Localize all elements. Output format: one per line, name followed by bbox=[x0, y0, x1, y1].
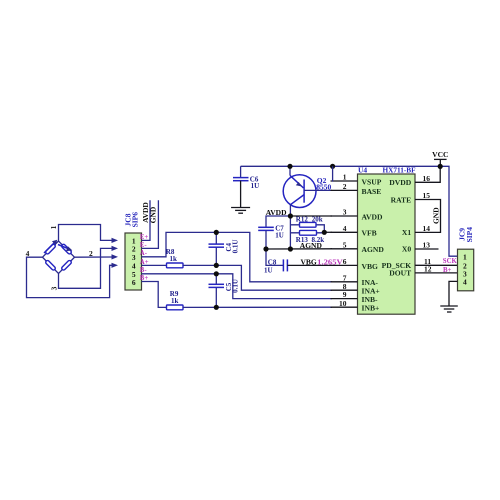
svg-text:1: 1 bbox=[49, 225, 58, 229]
svg-text:VFB: VFB bbox=[362, 229, 377, 238]
svg-text:X1: X1 bbox=[402, 228, 411, 237]
svg-text:8550: 8550 bbox=[316, 182, 331, 191]
arrow into JC8 pin3 bbox=[112, 254, 119, 259]
svg-text:RATE: RATE bbox=[391, 196, 412, 205]
ground symbol below C6 bbox=[231, 208, 250, 214]
JC9 pin numbers bbox=[463, 252, 467, 286]
transistor Q2 circle bbox=[283, 175, 316, 208]
JC8 pin numbers bbox=[132, 237, 136, 287]
wire A- net JC8 pin3 to IC pin7 INA- bbox=[142, 232, 333, 281]
wire AGND line to IC pin5 bbox=[266, 248, 332, 250]
svg-text:VBG: VBG bbox=[362, 262, 379, 271]
resistor R12 bbox=[300, 222, 317, 227]
wire A+ net JC8 pin4 to R8 bbox=[142, 264, 167, 266]
svg-text:3: 3 bbox=[343, 208, 347, 217]
IC U4 body bbox=[358, 174, 416, 314]
resistor R12 leads bbox=[290, 225, 324, 233]
junction dot C5 bottom bbox=[214, 305, 219, 310]
wire R9 to C5 junction to IC pin10 INB+ bbox=[183, 306, 332, 308]
capacitor C4 plates bbox=[209, 244, 225, 247]
resistor R13 bbox=[300, 230, 317, 235]
IC left pin numbers bbox=[339, 173, 347, 308]
svg-text:U4: U4 bbox=[358, 165, 367, 174]
junction dot AGND at C7 bbox=[263, 246, 268, 251]
junction dot AVDD node bbox=[288, 213, 293, 218]
IC left pin names bbox=[362, 177, 385, 312]
wire C8 to IC pin6 VBG bbox=[287, 264, 332, 266]
IC right pin names bbox=[382, 178, 412, 278]
svg-text:10: 10 bbox=[339, 299, 347, 308]
svg-text:HX711-BF: HX711-BF bbox=[383, 165, 416, 174]
svg-text:INB+: INB+ bbox=[362, 304, 380, 313]
wire VSUP riser to IC pin1 bbox=[331, 166, 334, 181]
connector JC9 body bbox=[458, 249, 474, 291]
wire JC9 pin4 to ground bbox=[449, 281, 458, 306]
wire pin16 DVDD to VCC rail bbox=[415, 166, 440, 182]
wire VFB node to IC pin4 bbox=[324, 231, 332, 233]
wire E- from bridge bottom to JC8 pin2 arrow bbox=[59, 248, 113, 288]
junction dot rail at VSUP riser bbox=[330, 164, 335, 169]
svg-text:GND: GND bbox=[431, 207, 440, 224]
svg-text:3: 3 bbox=[50, 286, 59, 290]
Q2 collector diagonal bbox=[290, 195, 304, 205]
svg-text:0.1U: 0.1U bbox=[232, 240, 240, 254]
capacitor C5 plates bbox=[209, 284, 225, 287]
IC right pin numbers bbox=[423, 174, 432, 274]
capacitor C4 leads bbox=[215, 232, 217, 265]
svg-text:SIP6: SIP6 bbox=[130, 212, 139, 228]
wire R8 to C4 junction to IC pin8 INA+ bbox=[183, 265, 332, 290]
capacitor C6 leads bbox=[240, 166, 242, 177]
svg-text:5: 5 bbox=[343, 240, 347, 249]
svg-text:DVDD: DVDD bbox=[389, 178, 411, 187]
bridge gauge arrow top-right bbox=[58, 245, 72, 252]
VCC power rail bbox=[241, 166, 458, 256]
svg-text:SIP4: SIP4 bbox=[465, 227, 474, 243]
junction dot AGND at divider bbox=[288, 246, 293, 251]
bridge strain gauge R bottom-left bbox=[45, 260, 56, 271]
bridge gauge arrow top-left bbox=[44, 240, 57, 253]
svg-text:1: 1 bbox=[463, 252, 467, 261]
resistor R8 bbox=[167, 263, 184, 268]
svg-text:13: 13 bbox=[423, 241, 431, 250]
wire B- net JC8 pin5 to IC pin9 INB- bbox=[142, 274, 333, 299]
svg-text:VCC: VCC bbox=[432, 150, 448, 159]
svg-text:B+: B+ bbox=[443, 267, 452, 274]
wire pin11 PD_SCK to JC9 pin2 bbox=[415, 264, 458, 266]
wire JC8 pin2 to GND stub bbox=[142, 200, 159, 248]
Q2 collector wire down to AVDD node bbox=[289, 205, 291, 216]
Q2 base wire to IC pin2 bbox=[304, 189, 332, 191]
wire AVDD node to IC pin3 bbox=[290, 215, 332, 217]
load cell bridge outline bbox=[43, 241, 75, 273]
wire B+ net JC8 pin6 to R9 bbox=[142, 282, 167, 308]
svg-text:14: 14 bbox=[423, 224, 431, 233]
svg-text:15: 15 bbox=[423, 191, 431, 200]
svg-text:VSUP: VSUP bbox=[362, 177, 382, 186]
svg-text:2: 2 bbox=[343, 182, 347, 191]
wire E+ from bridge top to JC8 pin1 arrow bbox=[59, 225, 113, 242]
divider vertical AVDD to AGND bbox=[289, 216, 291, 249]
svg-text:C8: C8 bbox=[268, 258, 277, 266]
svg-text:GND: GND bbox=[149, 206, 158, 223]
svg-text:SCK: SCK bbox=[443, 258, 458, 265]
wire A- from bridge right to JC8 pin3 arrow bbox=[75, 256, 113, 258]
svg-text:1U: 1U bbox=[264, 266, 273, 274]
arrow into JC8 pin4 bbox=[112, 263, 119, 268]
wire AGND down to C8 bbox=[266, 249, 283, 265]
junction dot rail at Q2 emitter bbox=[287, 164, 292, 169]
Q2 emitter diagonal with arrow bbox=[290, 175, 304, 188]
Q2 base bar bbox=[303, 180, 305, 203]
svg-text:1k: 1k bbox=[171, 297, 179, 305]
svg-text:AGND: AGND bbox=[362, 245, 385, 254]
bridge strain gauge R bottom-right bbox=[61, 260, 72, 271]
JC8 pin net labels bbox=[140, 234, 149, 282]
svg-text:DOUT: DOUT bbox=[389, 269, 411, 278]
C6 lower lead bbox=[240, 181, 242, 208]
resistor R9 bbox=[167, 305, 184, 310]
capacitor C6 plates bbox=[233, 178, 249, 181]
svg-text:X0: X0 bbox=[402, 245, 411, 254]
svg-text:20k: 20k bbox=[312, 215, 323, 223]
junction dot C5 top bbox=[214, 271, 219, 276]
junction dot VFB node bbox=[322, 230, 327, 235]
svg-text:0.1U: 0.1U bbox=[232, 279, 240, 293]
svg-text:BASE: BASE bbox=[362, 187, 382, 196]
resistor R13 leads bbox=[290, 232, 324, 234]
svg-text:AVDD: AVDD bbox=[362, 212, 383, 221]
ground symbol below JC9 bbox=[440, 306, 458, 312]
svg-text:1k: 1k bbox=[170, 255, 178, 263]
wire A+ from bridge left to JC8 pin4 arrow bbox=[27, 257, 113, 297]
svg-text:1U: 1U bbox=[275, 231, 284, 239]
svg-text:6: 6 bbox=[132, 278, 136, 287]
wire JC8 pin1 to AVDD stub bbox=[142, 200, 151, 240]
IC left pin stubs bbox=[331, 181, 358, 307]
wire pin12 DOUT to JC9 pin3 bbox=[415, 272, 458, 274]
capacitor C8 plates bbox=[283, 259, 287, 271]
svg-text:16: 16 bbox=[423, 174, 431, 183]
arrow into JC8 pin2 bbox=[112, 246, 119, 251]
wire AVDD node to C7 bbox=[266, 216, 290, 227]
junction dot C4 bottom bbox=[214, 263, 219, 268]
svg-text:VBG: VBG bbox=[301, 257, 317, 266]
pin13 X0 stub bbox=[415, 248, 439, 250]
arrow into JC8 pin1 bbox=[112, 238, 119, 243]
junction dot VCC bbox=[438, 164, 443, 169]
power symbol VCC bbox=[432, 150, 448, 166]
svg-text:1U: 1U bbox=[251, 182, 260, 190]
Q2 emitter wire from rail bbox=[289, 166, 291, 175]
svg-text:R12: R12 bbox=[296, 215, 309, 223]
wire pin15 RATE to pin14 X1 GND net bbox=[415, 200, 441, 233]
svg-text:1: 1 bbox=[343, 173, 347, 182]
svg-text:6: 6 bbox=[343, 257, 347, 266]
junction dot C4 top bbox=[214, 230, 219, 235]
svg-text:4: 4 bbox=[463, 278, 467, 287]
connector JC8 body bbox=[125, 233, 142, 290]
capacitor C7 plates bbox=[258, 227, 274, 230]
bridge strain gauge R top-left bbox=[45, 244, 56, 255]
svg-text:4: 4 bbox=[343, 224, 347, 233]
C7 lower lead to AGND bbox=[265, 230, 267, 249]
capacitor C5 leads bbox=[215, 274, 217, 308]
bridge strain gauge R top-right bbox=[61, 244, 72, 255]
